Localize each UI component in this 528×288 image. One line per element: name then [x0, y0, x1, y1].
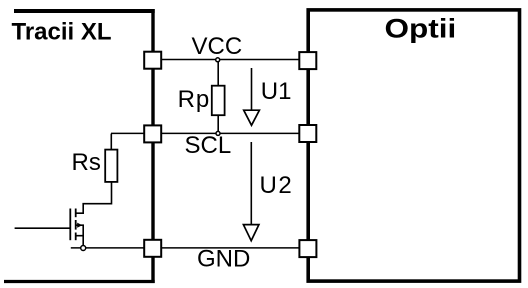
svg-text:GND: GND: [197, 245, 250, 272]
svg-text:VCC: VCC: [192, 33, 243, 60]
svg-text:Tracii XL: Tracii XL: [12, 19, 112, 46]
svg-text:Rp: Rp: [178, 86, 211, 113]
svg-text:U2: U2: [260, 172, 294, 199]
svg-text:Rs: Rs: [72, 149, 101, 176]
svg-text:U1: U1: [261, 78, 292, 105]
svg-text:Optii: Optii: [385, 15, 457, 44]
svg-text:SCL: SCL: [185, 132, 232, 159]
